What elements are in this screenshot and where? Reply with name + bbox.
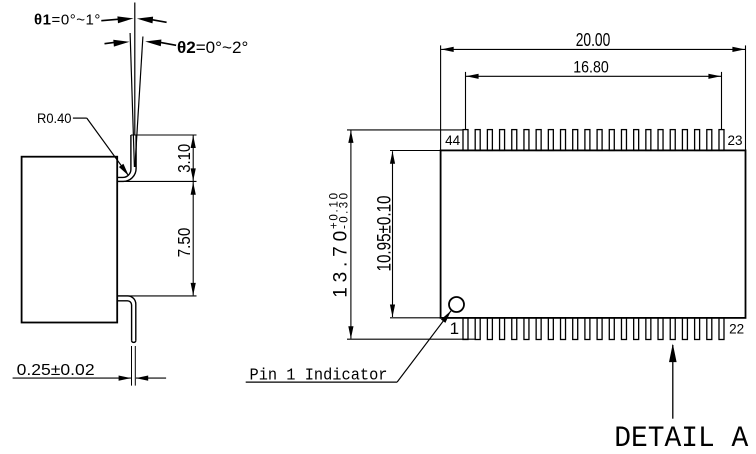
svg-text:13.70: 13.70: [331, 231, 352, 298]
svg-text:R0.40: R0.40: [37, 110, 72, 126]
svg-text:20.00: 20.00: [576, 30, 611, 50]
svg-text:Pin 1 Indicator: Pin 1 Indicator: [250, 367, 388, 386]
svg-text:44: 44: [445, 133, 461, 148]
svg-text:1: 1: [450, 319, 459, 338]
svg-text:22: 22: [729, 322, 744, 337]
svg-text:0.25±0.02: 0.25±0.02: [17, 362, 95, 379]
svg-text:7.50: 7.50: [174, 228, 194, 258]
svg-text:23: 23: [727, 133, 742, 148]
svg-text:3.10: 3.10: [174, 144, 194, 173]
svg-text:θ2=0°~2°: θ2=0°~2°: [177, 38, 248, 57]
svg-text:DETAIL A: DETAIL A: [614, 422, 748, 454]
svg-text:θ1=0°~1°: θ1=0°~1°: [34, 12, 100, 29]
svg-text:16.80: 16.80: [573, 58, 609, 77]
svg-text:-0.30: -0.30: [339, 193, 351, 229]
svg-text:10.95±0.10: 10.95±0.10: [375, 196, 396, 272]
